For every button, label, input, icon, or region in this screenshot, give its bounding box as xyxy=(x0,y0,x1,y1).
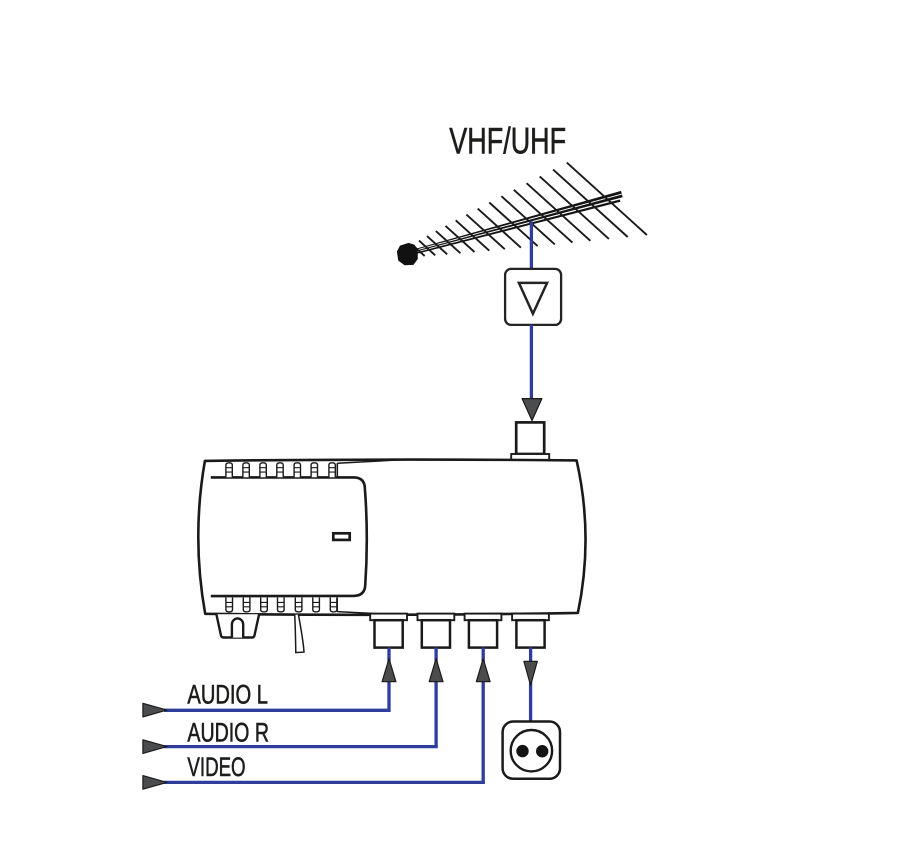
antenna A1 elements xyxy=(408,163,647,257)
TV outlet socket xyxy=(503,722,560,779)
wire antenna to amplifier xyxy=(530,222,533,271)
connector J2 audio R xyxy=(418,614,455,648)
source arrow audio L xyxy=(143,703,167,717)
wire video xyxy=(164,648,485,784)
power cable stub xyxy=(295,615,304,653)
connector J5 RF input xyxy=(511,422,549,460)
mounting tab xyxy=(216,614,259,637)
arrow RF out down xyxy=(524,661,537,685)
wire RF out to outlet xyxy=(529,648,532,722)
antenna A1 boom xyxy=(406,191,623,256)
modulator body xyxy=(198,460,585,615)
source arrow audio R xyxy=(143,740,167,754)
connector J1 audio L xyxy=(370,614,407,648)
connector J4 RF out xyxy=(512,614,549,648)
label VIDEO xyxy=(187,752,245,782)
wire audio R xyxy=(164,648,438,749)
top shield teeth row xyxy=(226,460,399,477)
arrow audio R into J2 xyxy=(429,659,443,682)
wire audio L xyxy=(164,648,391,712)
amplifier U1 xyxy=(505,269,561,325)
svg-text:AUDIO R: AUDIO R xyxy=(187,717,269,747)
label AUDIO R xyxy=(187,717,269,747)
arrow audio L into J1 xyxy=(382,659,396,682)
jumper slot xyxy=(333,533,349,540)
svg-text:VIDEO: VIDEO xyxy=(187,752,245,782)
svg-text:VHF/UHF: VHF/UHF xyxy=(449,121,566,162)
label VHF/UHF xyxy=(449,121,566,162)
amplifier U1 triangle symbol xyxy=(519,283,547,314)
modulator shield panel xyxy=(211,477,367,596)
bottom shield teeth row xyxy=(226,598,386,615)
antenna A1 feed point xyxy=(397,243,418,265)
svg-text:AUDIO L: AUDIO L xyxy=(187,680,268,710)
connector J3 video xyxy=(465,614,502,648)
arrow video into J3 xyxy=(476,659,490,682)
label AUDIO L xyxy=(187,680,268,710)
wire amplifier to RF input xyxy=(530,325,533,412)
arrow into RF input xyxy=(522,399,542,421)
source arrow video xyxy=(143,776,167,790)
